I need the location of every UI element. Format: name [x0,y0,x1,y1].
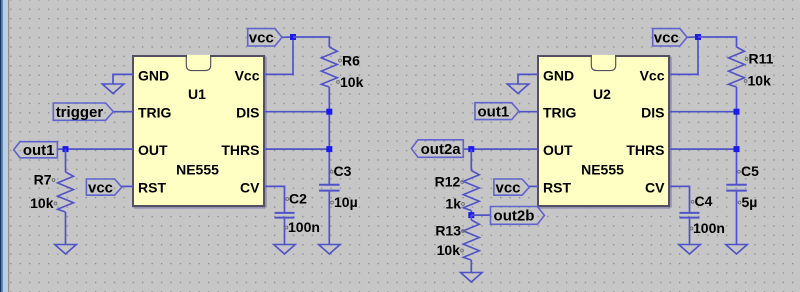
svg-text:5µ: 5µ [742,194,758,210]
svg-text:out1: out1 [23,142,55,159]
svg-text:100n: 100n [693,220,725,236]
svg-text:out1: out1 [478,103,510,120]
svg-text:vcc: vcc [654,30,679,47]
svg-text:NE555: NE555 [581,162,624,178]
svg-text:10k: 10k [340,74,364,90]
svg-text:U1: U1 [188,86,206,102]
svg-text:R12: R12 [435,174,461,190]
svg-text:CV: CV [240,179,260,195]
svg-text:CV: CV [645,179,665,195]
svg-text:100n: 100n [288,219,320,235]
svg-text:NE555: NE555 [176,162,219,178]
svg-text:R11: R11 [749,51,774,67]
svg-text:out2a: out2a [421,141,462,158]
svg-text:10k: 10k [748,73,772,89]
svg-text:OUT: OUT [543,142,573,158]
svg-text:vcc: vcc [495,179,520,196]
svg-text:out2b: out2b [494,208,535,225]
svg-text:R6: R6 [342,52,360,68]
svg-text:THRS: THRS [626,142,664,158]
svg-text:TRIG: TRIG [543,105,577,121]
svg-text:DIS: DIS [236,105,259,121]
svg-text:10k: 10k [437,242,461,258]
svg-text:RST: RST [543,179,571,195]
svg-text:GND: GND [543,67,574,83]
svg-text:THRS: THRS [221,142,259,158]
svg-text:C3: C3 [334,163,352,179]
svg-text:C4: C4 [695,193,713,209]
svg-text:vcc: vcc [88,179,113,196]
svg-text:R13: R13 [435,223,461,239]
svg-text:Vcc: Vcc [640,67,665,83]
svg-text:trigger: trigger [56,104,104,121]
svg-text:vcc: vcc [249,30,274,47]
svg-text:10µ: 10µ [334,194,358,210]
svg-text:C5: C5 [741,163,759,179]
svg-text:1k: 1k [445,196,461,212]
svg-text:OUT: OUT [138,142,168,158]
svg-text:RST: RST [138,179,166,195]
svg-text:DIS: DIS [641,105,664,121]
svg-text:C2: C2 [289,190,307,206]
svg-text:Vcc: Vcc [235,67,260,83]
svg-text:10k: 10k [30,195,54,211]
svg-text:GND: GND [138,67,169,83]
svg-text:U2: U2 [593,86,611,102]
svg-text:R7: R7 [34,171,52,187]
svg-text:TRIG: TRIG [138,105,172,121]
